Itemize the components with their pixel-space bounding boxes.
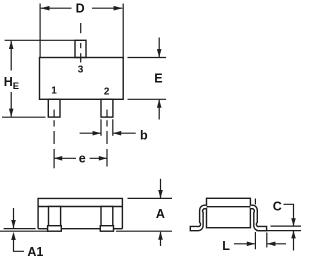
svg-text:E: E xyxy=(13,81,19,92)
svg-text:3: 3 xyxy=(78,64,84,75)
dimension b left arrowhead xyxy=(93,131,101,136)
dimension E lower arrowhead xyxy=(157,100,162,108)
end view right gull-wing lead xyxy=(250,205,266,231)
svg-text:E: E xyxy=(154,71,162,85)
dimension A top extension line xyxy=(128,197,173,199)
seating plane line right xyxy=(116,230,172,232)
svg-text:2: 2 xyxy=(104,87,110,98)
svg-text:1: 1 xyxy=(51,86,57,97)
dimension C upper arrowhead xyxy=(291,218,296,226)
package body (front view) xyxy=(40,58,124,100)
side view mold step line xyxy=(38,206,122,208)
dimension A1 upper arrow line xyxy=(13,208,15,228)
dimension C upper arrow line xyxy=(293,214,295,226)
dimension A1 lower arrowhead xyxy=(11,232,16,240)
dimension D arrow left xyxy=(41,6,50,11)
dimension E lower arrow line xyxy=(158,100,160,120)
dimension L left arrow line xyxy=(234,243,255,245)
dimension L extension line inner lower segment xyxy=(254,232,256,249)
side view body bottom edge segments xyxy=(38,228,122,230)
dimension A lower arrowhead xyxy=(158,232,163,240)
side view lead 2 xyxy=(101,207,113,226)
dimension E upper arrowhead xyxy=(157,49,162,57)
dimension L left arrowhead xyxy=(247,242,255,247)
dimension D extension line left xyxy=(39,4,41,58)
dimension A lower arrow line xyxy=(160,232,162,246)
pin 1 lead (front view) xyxy=(48,99,60,117)
dimension L extension line inner upper segment xyxy=(254,199,256,205)
dimension E upper arrow line xyxy=(158,38,160,58)
side view lead 1 xyxy=(49,207,61,226)
dimension C leader from label xyxy=(284,204,294,214)
dimension A1 upper extension line xyxy=(4,228,36,230)
dimension L right arrow line xyxy=(267,243,286,245)
dimension HE line xyxy=(10,41,12,117)
dimension b extension line left xyxy=(100,119,102,136)
side view foot 2 xyxy=(100,226,113,232)
dimension b left arrow line xyxy=(80,132,101,134)
dimension e right arrowhead xyxy=(99,156,107,161)
pin 1 centerline xyxy=(53,110,55,169)
dimension e left arrowhead xyxy=(54,156,62,161)
svg-text:A1: A1 xyxy=(27,245,43,256)
svg-text:C: C xyxy=(273,199,282,213)
pin 3 centerline xyxy=(80,23,82,63)
dimension D arrow right xyxy=(114,6,123,11)
dimension D extension line right xyxy=(122,4,124,58)
end view mold step line xyxy=(207,206,251,208)
dimension D line xyxy=(41,7,123,9)
dimension A upper arrow line xyxy=(160,179,162,198)
dimension b right arrowhead xyxy=(113,131,121,136)
svg-text:b: b xyxy=(140,129,148,143)
dimension L extension line outer xyxy=(266,233,268,248)
pin 2 lead (front view) xyxy=(101,99,113,117)
dimension b right arrow line xyxy=(113,132,136,134)
side view foot 1 xyxy=(48,226,62,232)
svg-text:D: D xyxy=(76,2,85,16)
svg-text:L: L xyxy=(222,239,230,253)
dimension E top extension line xyxy=(128,57,167,59)
dimension C lower arrow line xyxy=(293,231,295,251)
dimension e line xyxy=(54,157,106,159)
dimension A1 upper arrowhead xyxy=(11,220,16,228)
dimension b extension line right xyxy=(112,119,114,136)
pin 2 centerline xyxy=(106,110,108,167)
dimension A upper arrowhead xyxy=(158,190,163,198)
svg-text:A: A xyxy=(156,207,165,221)
dimension HE bottom extension line xyxy=(2,116,46,118)
side view body xyxy=(38,198,122,228)
dimension C top extension line xyxy=(271,225,302,227)
dimension C lower arrowhead xyxy=(291,231,296,239)
dimension HE arrow down xyxy=(9,109,14,117)
svg-text:e: e xyxy=(79,152,86,166)
pin 3 tab (front view) xyxy=(75,40,86,57)
dimension HE arrow up xyxy=(9,41,14,49)
dimension C bottom extension line xyxy=(256,230,301,232)
seating plane line left xyxy=(0,230,50,232)
end view left gull-wing lead xyxy=(190,205,206,231)
dimension E bottom extension line xyxy=(128,98,167,100)
dimension A1 leader elbow xyxy=(14,239,25,251)
dimension L right arrowhead xyxy=(267,242,275,247)
dimension HE top extension line xyxy=(5,39,75,41)
svg-text:H: H xyxy=(4,75,13,89)
end view body xyxy=(207,198,251,227)
